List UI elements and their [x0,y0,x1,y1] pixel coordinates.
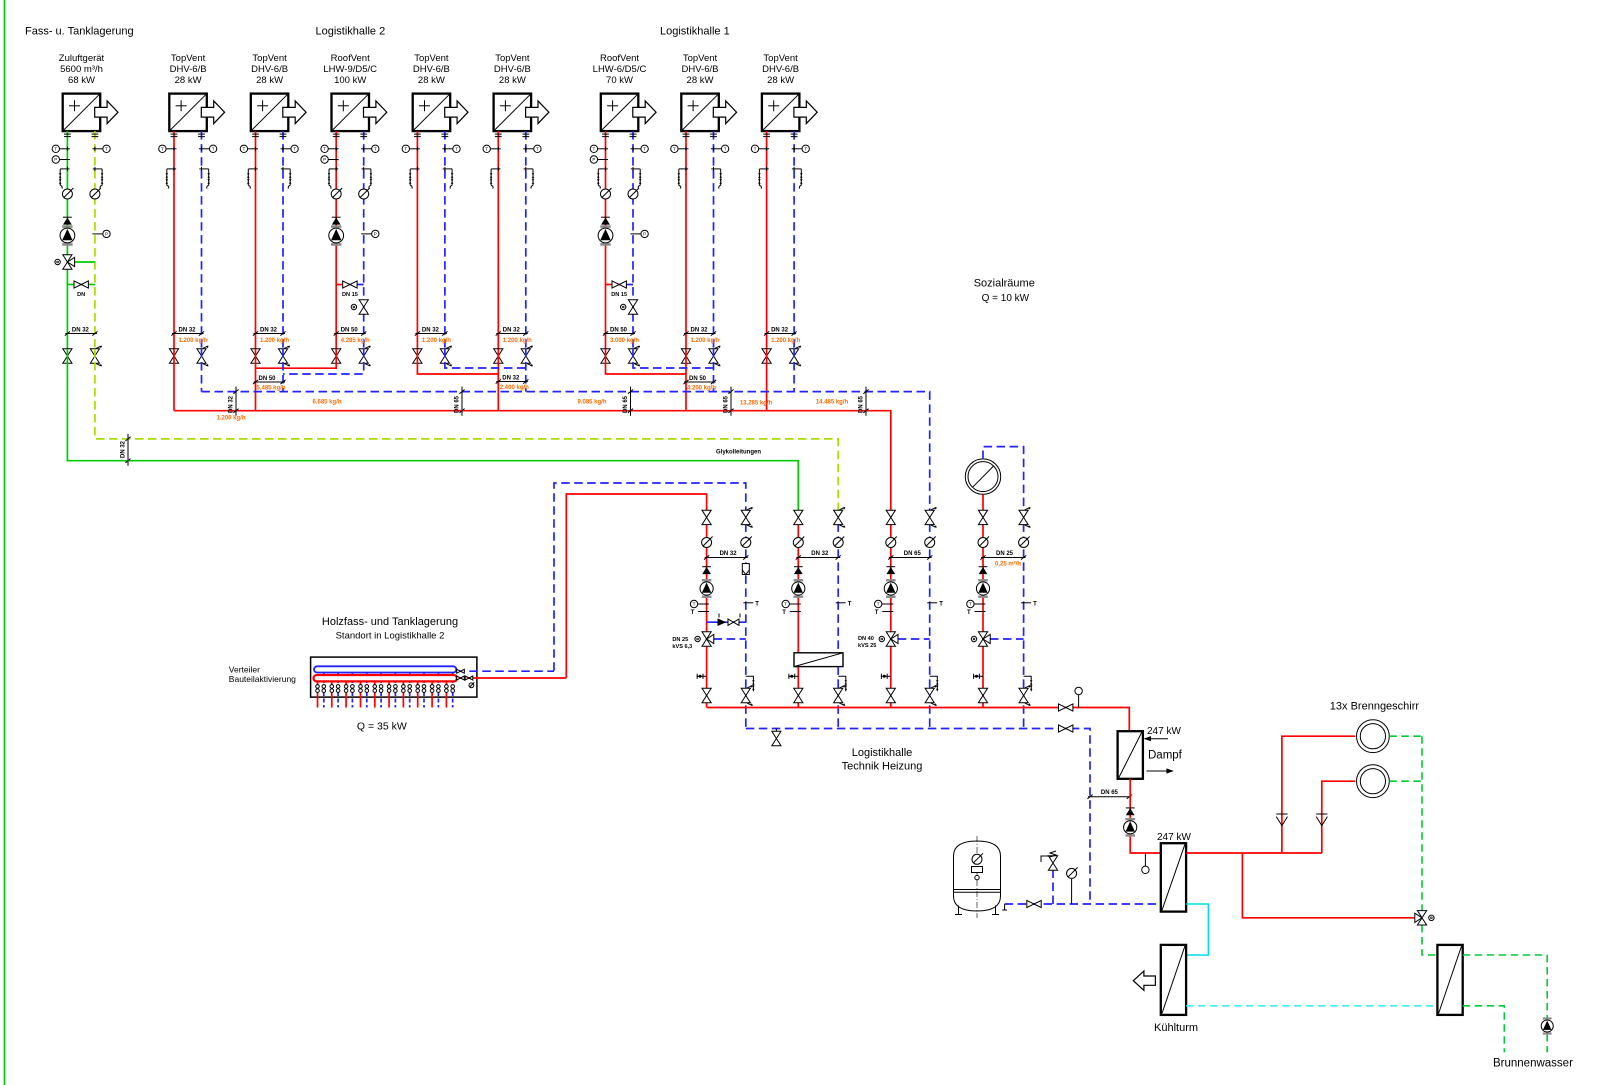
pressure sensor return U7 [631,230,649,237]
supply pipe U4 [335,131,337,349]
circuit K3 pressure gauges [886,537,936,548]
dimension DN 65 headers [623,387,633,416]
shutoff valve supply U7 [601,349,610,363]
condensate outlet arrow [1147,768,1174,773]
supply pipe U2 [173,131,175,349]
pipe Sozialraeume return [983,447,1024,511]
pump boiler [1124,818,1137,837]
circuit K4 bottom valve supply [978,688,987,702]
svg-text:Brunnenwasser: Brunnenwasser [1493,1058,1573,1070]
expansion line [1005,903,1161,905]
manifold return connection [456,669,554,673]
svg-text:RoofVent: RoofVent [331,53,370,64]
air vents U7 [597,167,642,189]
dimension DN 50 U7/U8 [683,376,716,384]
svg-text:DN 50: DN 50 [341,328,359,334]
svg-text:100 kW: 100 kW [334,75,366,86]
circuit K2 thermometer return [836,601,852,607]
circuit K2 thermometer supply [782,600,801,616]
circuit K2 check valve [794,567,803,574]
circuit K4 dimension DN 25 [980,551,1026,560]
svg-text:Dampf: Dampf [1148,750,1183,762]
supply pipe U6 [497,131,499,349]
circuit K1 drain return [746,676,755,691]
svg-text:RoofVent: RoofVent [600,53,639,64]
flex connectors U2 [171,134,205,137]
circuit K1 differential pressure valve [707,614,746,627]
return pipe U9 [793,131,795,349]
circuit K1 shutoff valve return [741,507,753,527]
dimension DN 32 glycol [121,434,131,466]
circuit K1 thermometer return [743,601,759,607]
circuit K3 thermometer return [927,601,943,607]
pipe U5 return to junction [445,349,526,368]
svg-text:68 kW: 68 kW [68,75,95,86]
dimension DN 32 U8 [683,328,716,336]
circuit K4 drain return [1024,676,1033,691]
circuit K1 pump [700,579,713,598]
circuit K1 shutoff valve supply [702,510,711,524]
label Holzfass- und Tanklagerung [322,616,458,642]
pressure sensor return U1 [92,230,110,237]
circuit K3 thermometer supply [875,600,894,616]
circuit K4 check valve [979,567,988,574]
dimension DN 32 headers [229,387,239,416]
air vents U9 [758,167,803,189]
dimension DN 65 boiler [1087,790,1132,799]
shutoff valve supply U8 [681,349,690,363]
svg-text:1.200 kg/h: 1.200 kg/h [503,338,532,344]
svg-text:Bauteilaktivierung: Bauteilaktivierung [229,674,296,684]
temperature sensors U7 [590,145,648,152]
circuit K1 dimension DN 32 [704,551,748,560]
svg-text:DHV-6/B: DHV-6/B [494,64,531,75]
shutoff valve return U4 [359,346,371,366]
circuit K1 thermometer supply [690,600,709,616]
pipe U4 return to junction [283,349,364,374]
svg-text:T: T [875,610,879,616]
bottom blue header [746,729,1090,905]
flex connectors U9 [763,134,797,137]
pipe HX2 to kettles header [1186,852,1322,854]
svg-text:DN 32: DN 32 [720,551,738,557]
label U5 [413,53,450,86]
pipe U9 return to blue header [793,349,795,392]
svg-text:T: T [939,601,943,607]
svg-text:kVS 6,3: kVS 6,3 [672,644,692,650]
dimension DN 50 U7 [603,328,636,336]
return pipe U5 [444,131,446,349]
circuit K2 dimension DN 32 [796,551,841,560]
air handling unit U1 symbol [63,94,118,132]
dimension DN 32 U6 [496,328,529,336]
svg-text:1.200 kg/h: 1.200 kg/h [771,338,800,344]
circuit K4 pressure gauges [978,537,1030,548]
svg-text:DN: DN [77,292,85,298]
drain on blue header [772,729,781,746]
svg-text:5.485 kg/h: 5.485 kg/h [257,386,286,392]
circuit K4 supply pipe [982,523,984,707]
shutoff valve supply U6 [494,349,503,363]
pipe U6 supply to red header [497,349,499,411]
svg-text:DN 32: DN 32 [502,376,520,382]
circuit K4 shutoff valve supply [978,510,987,524]
flex connectors U4 [333,134,367,137]
return pipe U6 [525,131,527,349]
pipe U5 supply to junction [417,349,498,374]
svg-text:14.485 kg/h: 14.485 kg/h [816,400,849,406]
circuit K1 three-way valve [695,632,746,646]
cooling tower heat exchanger [1161,945,1186,1015]
svg-text:DN 32: DN 32 [260,328,278,334]
circuit K2 drain return [838,676,847,691]
air vents U4 [328,167,373,189]
svg-text:28 kW: 28 kW [499,75,526,86]
pipe U9 supply to red header [766,349,768,411]
circuit K1 bottom valve return [741,685,753,705]
shutoff valve return U9 [790,346,802,366]
circuit K1 return pipe [745,523,747,728]
air vents U5 [409,167,454,189]
air vents U3 [247,167,292,189]
pipe manifold supply riser [566,494,706,678]
svg-text:LHW-6/D5/C: LHW-6/D5/C [593,64,647,75]
kettle 2 [1357,765,1390,798]
dimension DN 32 U2 [171,328,204,336]
circuit K3 check valve [886,567,895,574]
pipe steam HX to HX2 [1130,779,1161,853]
flex connectors U1 [64,134,98,137]
check valve U1 [63,217,72,224]
supply pipe U5 [416,131,418,349]
motor valve return U7 [621,300,638,314]
temperature sensors U5 [402,145,460,152]
svg-text:TopVent: TopVent [252,53,287,64]
svg-text:Logistikhalle 1: Logistikhalle 1 [660,26,730,38]
circuit K3 supply pipe [890,523,892,707]
circuit K3 shutoff valve return [925,507,937,527]
air handling unit U4 symbol [332,94,387,132]
svg-text:DN 32: DN 32 [503,328,521,334]
air vents U6 [490,167,535,189]
air arrow cooling tower [1133,971,1155,990]
vessel connection drain [1002,904,1007,910]
air vents U1 [59,167,104,189]
shutoff valve return U8 [709,346,721,366]
svg-text:2.400 kg/h: 2.400 kg/h [500,385,529,391]
shutoff valve return U7 [628,346,640,366]
circuit K4 thermometer return [1021,601,1037,607]
manifold box [311,657,477,697]
heat exchanger well water [1437,945,1462,1015]
pump U4 [329,225,344,245]
circuit K3 return pipe [929,523,931,728]
pipe U4 supply to junction [256,349,337,368]
svg-text:T: T [755,601,759,607]
circuit K2 bottom valve supply [794,688,803,702]
return pipe U3 [282,131,284,349]
svg-text:13.285 kg/h: 13.285 kg/h [740,401,773,407]
svg-text:TopVent: TopVent [683,53,718,64]
well water line from kettles [1389,736,1437,955]
svg-text:Zuluftgerät: Zuluftgerät [59,53,105,64]
pressure gauges U1 [62,188,101,199]
dimension DN 65 headers [455,387,465,416]
svg-text:1.200 kg/h: 1.200 kg/h [691,338,720,344]
circuit K2 pump [792,579,805,598]
label Verteiler Bauteilaktivierung [229,665,296,685]
dimension DN 50 U3/U4 [253,376,286,384]
dimension DN 65 headers [724,387,734,416]
circuit K3 shutoff valve supply [886,510,895,524]
label U6 [494,53,531,86]
circuit K2 shutoff valve return [834,507,846,527]
svg-text:T: T [967,610,971,616]
svg-text:28 kW: 28 kW [687,75,714,86]
return pipe U8 [713,131,715,349]
circuit K4 union [973,674,983,679]
circuit K1 pressure gauges [702,537,752,548]
svg-text:DN 32: DN 32 [771,328,789,334]
heat exchanger 247 kW [1161,843,1186,911]
bypass valve DN 15 U4 [336,281,364,298]
svg-text:DN 65: DN 65 [623,395,629,413]
well water supply to pump [1463,955,1548,1052]
shutoff valve supply U5 [413,349,422,363]
shutoff valve return U2 [197,346,209,366]
supply pipe U3 [255,131,257,349]
svg-text:4.200 kg/h: 4.200 kg/h [687,386,716,392]
return pipe U7 [632,131,634,349]
check valve U4 [332,217,341,224]
svg-text:70 kW: 70 kW [606,75,633,86]
mixing valve well water [1415,911,1434,925]
svg-text:DHV-6/B: DHV-6/B [170,64,207,75]
temperature sensors U3 [240,145,298,152]
dimension DN 32 U3 [253,328,286,336]
svg-text:Kühlturm: Kühlturm [1154,1022,1198,1034]
svg-text:DHV-6/B: DHV-6/B [762,64,799,75]
svg-text:1.200 kg/h: 1.200 kg/h [216,416,245,422]
svg-text:0,25 m³/h: 0,25 m³/h [995,561,1021,568]
sensor bottom red header [1075,687,1082,707]
bottom red header [707,708,1130,732]
svg-text:Technik Heizung: Technik Heizung [842,761,923,773]
circuit K2 shutoff valve supply [794,510,803,524]
supply pipe U7 [605,131,607,349]
label U7 [593,53,647,86]
dimension DN 50 U4 [334,328,367,336]
pipe U2 supply to red header [173,349,175,411]
manifold stub valves [316,685,455,693]
circuit K4 bottom valve return [1019,685,1031,705]
circuit K3 union [881,674,891,679]
svg-text:DHV-6/B: DHV-6/B [251,64,288,75]
valve bottom red header [1059,704,1073,711]
pressure sensor supply U7 [590,156,608,163]
svg-text:5600 m³/h: 5600 m³/h [60,64,103,75]
shutoff valve supply U3 [251,349,260,363]
circuit K1 check valve [702,567,711,574]
label U4 [323,53,377,86]
svg-text:DN 32: DN 32 [72,328,90,334]
flow arrow kettle 2 [1316,814,1327,826]
svg-text:TopVent: TopVent [414,53,449,64]
svg-text:DN 50: DN 50 [689,376,707,382]
circuit K2 return pipe [837,523,839,728]
svg-text:DN 15: DN 15 [611,292,627,298]
shutoff valve supply U4 [332,349,341,363]
shutoff valve return U3 [278,346,290,366]
manifold supply bar [314,675,457,681]
svg-text:28 kW: 28 kW [418,75,445,86]
dimension DN 32 U5/U6 [496,376,529,384]
pump U7 [598,225,613,245]
svg-text:DN 32: DN 32 [229,395,235,413]
circuit K1 bottom valve supply [702,688,711,702]
pressure sensor supply U4 [321,156,339,163]
pressure gauge expansion line [1067,867,1078,904]
pipe U6 return to blue header [525,349,527,392]
svg-text:DN 15: DN 15 [342,292,358,298]
svg-text:DN 32: DN 32 [179,328,197,334]
motor valve return U4 [351,300,368,314]
three-way valve U1 [55,255,95,269]
shutoff valve supply U2 [169,349,178,363]
svg-text:Holzfass- und Tanklagerung: Holzfass- und Tanklagerung [322,616,458,628]
label U3 [251,53,288,86]
flex connectors U3 [252,134,286,137]
dimension DN 65 headers [859,387,869,416]
flex connectors U6 [495,134,529,137]
temperature sensors U6 [483,145,541,152]
svg-text:TopVent: TopVent [171,53,206,64]
shutoff valve supply U9 [762,349,771,363]
svg-text:1.200 kg/h: 1.200 kg/h [179,338,208,344]
pipe to mixing valve [1242,853,1414,918]
circuit K4 shutoff valve return [1019,507,1031,527]
svg-text:Verteiler: Verteiler [229,665,260,675]
well water return line [1463,1006,1505,1053]
svg-text:Logistikhalle 2: Logistikhalle 2 [316,26,386,38]
circuit K1 supply pipe [706,523,708,707]
label U8 [682,53,719,86]
svg-text:DN 65: DN 65 [724,395,730,413]
flex connectors U8 [683,134,717,137]
temperature sensors U4 [321,145,379,152]
svg-text:247 kW: 247 kW [1147,726,1181,737]
svg-text:DN 65: DN 65 [859,395,865,413]
circuit K2 heat exchanger [794,653,843,667]
circuit K4 three-way valve [971,632,1023,646]
main blue header [202,392,930,511]
pipe U2 return to blue header [201,349,203,392]
dimension DN 32 U5 [415,328,448,336]
air handling unit U8 symbol [681,94,736,132]
heat exchanger 247 kW Dampf [1118,731,1143,779]
temperature sensors U9 [751,145,809,152]
svg-text:TopVent: TopVent [495,53,530,64]
air vents U2 [166,167,211,189]
circuit K3 bottom valve supply [886,688,895,702]
return pipe U2 [201,131,203,349]
svg-text:T: T [691,610,695,616]
svg-text:DHV-6/B: DHV-6/B [413,64,450,75]
pressure gauges U4 [331,188,370,199]
pressure sensor return U4 [361,230,379,237]
steam inlet arrow [1144,736,1169,741]
svg-text:9.085 kg/h: 9.085 kg/h [577,400,606,406]
svg-text:247 kW: 247 kW [1157,832,1191,843]
glycol return pipe to U1 [95,349,838,511]
temperature sensors U1 [52,145,110,152]
svg-text:Q = 35 kW: Q = 35 kW [357,721,407,733]
svg-text:DN 65: DN 65 [1101,790,1119,796]
circuit K3 pump [884,579,897,598]
supply pipe U8 [685,131,687,349]
air handling unit U6 symbol [494,94,549,132]
label U2 [170,53,207,86]
svg-text:DN 32: DN 32 [121,440,127,458]
return pipe U4 [363,131,365,349]
svg-text:Fass- u. Tanklagerung: Fass- u. Tanklagerung [25,26,134,38]
air handling unit U9 symbol [762,94,817,132]
shutoff valve supply U1 [63,349,72,363]
supply pipe U1 [66,131,68,349]
svg-text:T: T [1033,601,1037,607]
flex connectors U7 [602,134,636,137]
bypass valve DN 15 U7 [606,281,634,298]
svg-text:DN 65: DN 65 [904,551,922,557]
air handling unit U2 symbol [169,94,224,132]
svg-text:Standort in Logistikhalle 2: Standort in Logistikhalle 2 [336,631,445,642]
bypass valve DN U1 [67,281,95,298]
air vents U8 [678,167,723,189]
pipe kettle 1 feed [1282,736,1355,853]
svg-text:28 kW: 28 kW [767,75,794,86]
svg-text:DN 50: DN 50 [259,376,277,382]
valve expansion line [1027,900,1041,907]
safety valve group [1041,851,1058,904]
shutoff valve return U1 [90,346,102,366]
pump U1 [60,225,75,245]
label Sozialraeume [974,278,1035,305]
svg-text:T: T [848,601,852,607]
circuit K2 bottom valve return [834,685,846,705]
pipe U7 return to junction [633,349,714,368]
svg-text:1.200 kg/h: 1.200 kg/h [422,338,451,344]
circuit K2 pressure gauges [793,537,844,548]
circuit K1 union [697,674,707,679]
cooling water to well HX [1186,1005,1437,1007]
circuit K4 thermometer supply [967,600,986,616]
svg-text:DN 40: DN 40 [858,636,874,642]
supply pipe U9 [766,131,768,349]
label U9 [762,53,799,86]
svg-text:DN 25: DN 25 [672,637,688,643]
circuit K1 strainer [742,564,749,575]
dimension DN 32 U1 [65,328,98,336]
shutoff valve return U5 [440,346,452,366]
flow arrow kettle 1 [1276,814,1287,826]
kettle 1 [1357,720,1390,753]
label DN 25 kVS 6,3 [672,637,692,650]
expansion vessel [954,836,1001,918]
flex connectors U5 [414,134,448,137]
pipe manifold return riser [554,483,746,671]
circuit K3 drain return [930,676,939,691]
label Logistikhalle Technik Heizung [842,747,923,773]
